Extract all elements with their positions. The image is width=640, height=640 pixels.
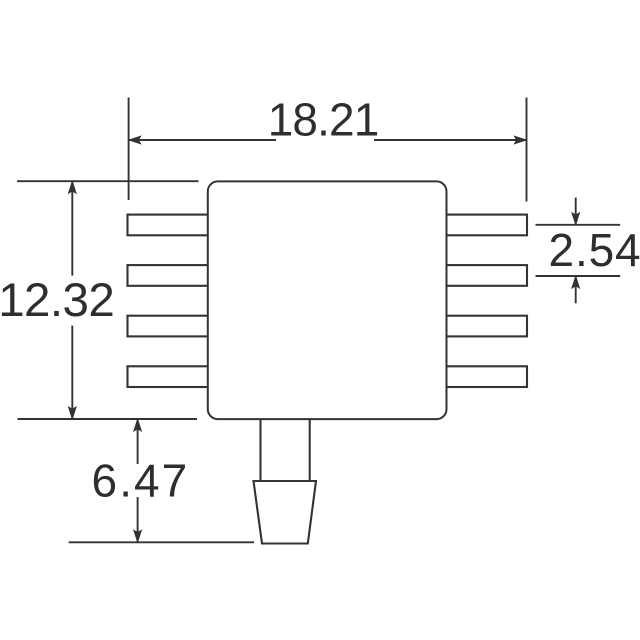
dim 6.47 line (lower segment)	[137, 497, 139, 542]
dim 12.32 line (upper segment)	[71, 181, 73, 275]
port barb (tapered tip)	[254, 481, 317, 544]
lead L3	[128, 316, 210, 337]
dim 2.54 upper extension line (lead R1 center)	[536, 224, 621, 226]
dim 12.32 down arrowhead	[68, 407, 76, 419]
dim 6.47 up arrowhead	[134, 419, 142, 431]
dim 12.32 bottom extension line	[18, 418, 198, 420]
dim text 6.47	[92, 454, 188, 506]
lead L1 (left, top)	[128, 215, 210, 236]
sensor body (rounded square package)	[208, 181, 447, 419]
dim 12.32 up arrowhead	[68, 181, 76, 193]
dim 2.54 lower extension line (lead R2 center)	[536, 275, 621, 277]
dim 18.21 line (right segment)	[374, 139, 527, 141]
dim 18.21 left extension line	[128, 98, 130, 201]
dim 18.21 right extension line	[526, 98, 528, 202]
dim 18.21 line (left segment)	[129, 139, 276, 141]
lead R3	[446, 316, 528, 337]
lead L2	[128, 265, 210, 286]
dim 18.21 left arrowhead	[129, 136, 141, 144]
dim 2.54 lower leader line	[575, 276, 577, 303]
dim 2.54 down arrowhead	[572, 213, 580, 225]
dim 18.21 right arrowhead	[514, 136, 526, 144]
dim 6.47 line (upper segment)	[137, 419, 139, 464]
dim text 2.54	[549, 224, 640, 276]
dim 6.47 bottom extension line	[69, 541, 254, 543]
port neck (left wall)	[259, 419, 261, 481]
port neck (right wall)	[309, 419, 311, 481]
dim 6.47 down arrowhead	[134, 530, 142, 542]
dim 2.54 up arrowhead	[572, 276, 580, 288]
lead R2	[446, 265, 528, 286]
dim 2.54 upper leader line	[575, 198, 577, 225]
dim text 12.32	[0, 274, 115, 327]
svg-text:2.54: 2.54	[549, 224, 640, 276]
lead R1 (right, top)	[446, 215, 528, 236]
svg-text:18.21: 18.21	[268, 94, 380, 146]
svg-text:6.47: 6.47	[92, 454, 188, 506]
svg-text:12.32: 12.32	[0, 274, 115, 327]
dim 12.32 line (lower segment)	[71, 326, 73, 419]
dim text 18.21	[268, 94, 380, 146]
lead R4 (right, bottom)	[446, 366, 528, 387]
lead L4 (left, bottom)	[128, 366, 210, 387]
dim 12.32 top extension line	[17, 180, 199, 182]
